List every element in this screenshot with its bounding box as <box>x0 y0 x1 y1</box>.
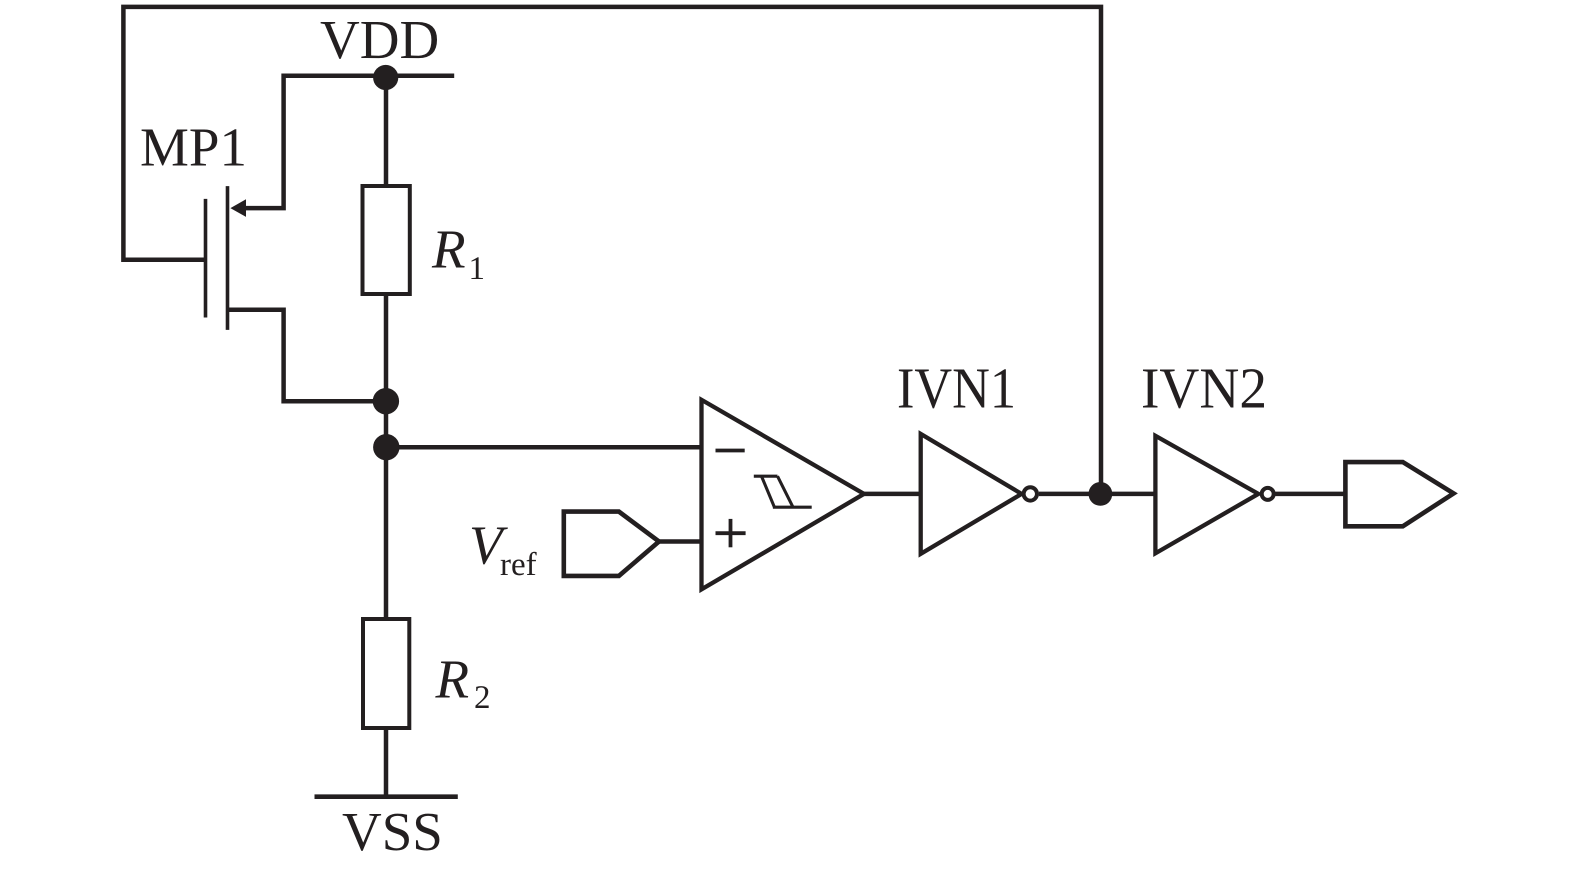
transistor MP1: source arrow head <box>230 199 246 217</box>
svg-text:VSS: VSS <box>342 801 443 862</box>
svg-text:VDD: VDD <box>320 9 439 70</box>
wire: MP1 drain lead down to node A <box>228 310 386 402</box>
inverter IVN1 output bubble <box>1024 487 1037 500</box>
svg-text:ref: ref <box>500 547 537 583</box>
ground bar VSS <box>315 794 458 799</box>
comparator U1: inverting input minus sign <box>716 449 745 453</box>
svg-text:IVN1: IVN1 <box>897 356 1016 421</box>
transistor MP1: gate bar <box>204 199 208 318</box>
node dot A: MP1 drain / R1 junction <box>373 388 399 414</box>
comparator U1: hysteresis symbol <box>754 476 812 507</box>
wire: IVN2 output to OUT port <box>1276 492 1346 497</box>
wire: IVN1 output to IVN2 input <box>1039 492 1156 497</box>
svg-text:1: 1 <box>469 251 486 287</box>
svg-text:MP1: MP1 <box>140 117 247 178</box>
wire: VDD rail <box>282 73 455 78</box>
wire: R1 top lead from VDD rail <box>384 76 389 188</box>
resistor R2 <box>363 619 409 728</box>
wire: Vref port to comparator non-inverting input <box>657 539 702 544</box>
transistor MP1: channel bar <box>226 186 230 330</box>
wire: MP1 source lead up to VDD rail <box>244 74 284 209</box>
svg-text:R: R <box>431 219 466 280</box>
wire: R1 bottom lead through node A to node B <box>384 292 389 449</box>
inverter IVN2 output bubble <box>1262 488 1274 500</box>
resistor R1 <box>363 186 410 294</box>
node dot at VDD rail <box>373 65 398 90</box>
input port Vref <box>564 512 659 576</box>
wire: node B to comparator inverting input <box>386 445 702 450</box>
svg-text:2: 2 <box>474 680 491 716</box>
wire: R2 bottom lead to VSS <box>384 726 389 797</box>
svg-text:R: R <box>435 649 470 710</box>
node dot C: feedback junction between IVN1 and IVN2 <box>1089 482 1113 506</box>
inverter IVN2 body <box>1155 436 1258 554</box>
wire: node B down to R2 <box>384 447 389 621</box>
wire: comparator output to IVN1 input <box>862 492 921 497</box>
comparator U1 (Schmitt) body <box>702 400 865 590</box>
comparator U1: non-inverting input plus sign <box>716 531 746 535</box>
output port <box>1345 462 1453 526</box>
svg-text:IVN2: IVN2 <box>1141 356 1267 421</box>
inverter IVN1 body <box>921 434 1022 554</box>
node dot B: divider tap to comparator <box>373 434 399 460</box>
wire: feedback net from node between IVN1 and IVN2 up over the top to MP1 gate <box>123 7 1101 494</box>
